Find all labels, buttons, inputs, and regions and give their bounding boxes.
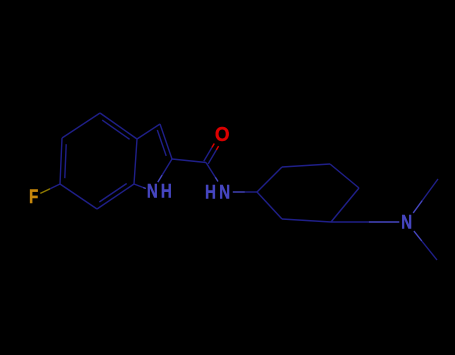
svg-text:N: N [401, 211, 412, 233]
svg-text:N: N [147, 180, 158, 202]
svg-text:N: N [219, 181, 230, 203]
svg-text:H: H [205, 181, 216, 203]
svg-text:O: O [215, 124, 230, 147]
svg-text:F: F [29, 186, 38, 208]
svg-text:H: H [161, 180, 172, 202]
